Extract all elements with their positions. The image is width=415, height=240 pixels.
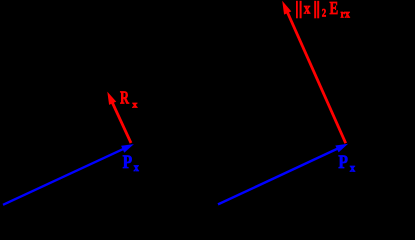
svg-text:x: x xyxy=(304,1,310,18)
svg-text:E: E xyxy=(330,0,339,18)
svg-text:x: x xyxy=(134,162,139,174)
svg-text:2: 2 xyxy=(322,7,326,19)
svg-text:R: R xyxy=(120,87,129,107)
svg-text:P: P xyxy=(123,152,133,172)
svg-text:rx: rx xyxy=(341,8,351,21)
svg-text:P: P xyxy=(338,152,348,173)
svg-text:x: x xyxy=(132,100,137,111)
svg-text:x: x xyxy=(350,161,355,174)
